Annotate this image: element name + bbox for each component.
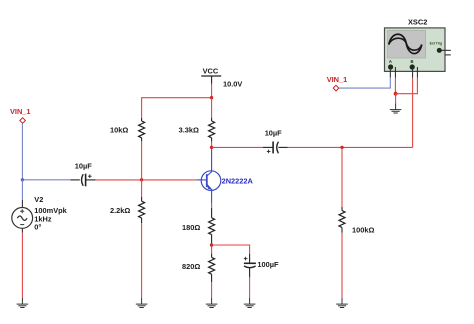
wire input horizontal to C1 (blue) bbox=[22, 179, 70, 181]
ground below scope bbox=[390, 103, 402, 113]
transistor Q1 2N2222A bbox=[196, 149, 221, 203]
source V2 bbox=[12, 200, 33, 233]
wire input vertical (blue) bbox=[21, 124, 23, 180]
wire 3.3k to collector node (red) bbox=[211, 141, 213, 147]
wire C3 to ground (red) bbox=[249, 277, 251, 298]
svg-text:2N2222A: 2N2222A bbox=[222, 176, 254, 185]
scope waveform A bbox=[389, 34, 422, 53]
resistor R2 2.2kOhm bbox=[139, 197, 145, 223]
svg-text:A: A bbox=[389, 59, 392, 64]
wire V2 to ground (red) bbox=[21, 233, 23, 298]
power VCC symbol bbox=[201, 76, 221, 84]
capacitor C2 10uF (output) bbox=[263, 142, 288, 154]
ground below 100k bbox=[336, 298, 348, 308]
svg-text:0°: 0° bbox=[34, 223, 41, 232]
ground below V2 bbox=[17, 298, 29, 308]
wire scope junction to B- (red) bbox=[395, 78, 417, 94]
wire C2 to 100k node (red) bbox=[288, 146, 413, 148]
node VIN_1 diamond (right) bbox=[333, 85, 339, 91]
wire V2 top (blue) bbox=[21, 180, 23, 200]
svg-text:10µF: 10µF bbox=[265, 128, 282, 137]
wire VCC to 3.3k (red) bbox=[211, 98, 213, 118]
junction scope ground node bbox=[394, 92, 398, 96]
svg-text:10kΩ: 10kΩ bbox=[110, 125, 128, 134]
resistor R3 3.3kOhm bbox=[209, 118, 215, 141]
svg-text:VIN_1: VIN_1 bbox=[327, 75, 348, 84]
wire 2.2k to ground (red) bbox=[141, 223, 143, 298]
oscilloscope XSC2 body bbox=[385, 28, 446, 72]
resistor R6 820Ohm bbox=[209, 254, 215, 282]
svg-text:B: B bbox=[411, 59, 414, 64]
svg-text:180Ω: 180Ω bbox=[182, 223, 200, 232]
svg-text:Ext Trig: Ext Trig bbox=[430, 42, 442, 46]
wire 820 to ground (red) bbox=[211, 282, 213, 298]
ground below C3 bbox=[244, 298, 256, 308]
wire divider mid (red) bbox=[141, 141, 143, 197]
scope waveform B bbox=[389, 38, 422, 50]
wire divider rail top (red) bbox=[142, 98, 212, 118]
wire emitter to 180 (red) bbox=[211, 203, 213, 208]
junction base/divider node bbox=[140, 178, 143, 181]
svg-text:100kΩ: 100kΩ bbox=[352, 226, 374, 235]
wire VIN to scope A (blue) bbox=[339, 78, 391, 89]
scope terminal B bbox=[410, 59, 418, 77]
wire output node to C2 (red) bbox=[212, 146, 263, 148]
svg-text:2.2kΩ: 2.2kΩ bbox=[110, 206, 130, 215]
wire C1 to base (red) bbox=[96, 179, 197, 181]
svg-text:820Ω: 820Ω bbox=[182, 262, 200, 271]
wire scope junction to ground (red) bbox=[395, 94, 397, 104]
ground below 2.2k bbox=[136, 298, 148, 308]
scope Ext Trig terminal bbox=[437, 48, 451, 55]
svg-text:VIN_1: VIN_1 bbox=[10, 107, 31, 116]
wire up to scope B+ (red) bbox=[412, 78, 414, 148]
wire scope A- to ground junction (red) bbox=[394, 78, 396, 94]
wire 100k to ground (red) bbox=[341, 233, 343, 298]
node VIN_1 diamond (left) bbox=[20, 118, 26, 124]
junction emitter node bbox=[210, 243, 213, 246]
capacitor C3 100uF bbox=[244, 254, 256, 277]
svg-text:10µF: 10µF bbox=[75, 161, 92, 170]
scope terminal A bbox=[388, 59, 395, 77]
svg-text:10.0V: 10.0V bbox=[223, 80, 242, 89]
junction 100k node bbox=[340, 146, 343, 149]
resistor R4 180Ohm bbox=[209, 208, 215, 243]
resistor R5 100kOhm bbox=[339, 207, 345, 233]
junction input node (blue dot) bbox=[21, 178, 24, 181]
svg-text:100µF: 100µF bbox=[257, 260, 279, 269]
wire emitter junction to C3 (red) bbox=[212, 245, 250, 254]
svg-text:VCC: VCC bbox=[203, 66, 219, 75]
ground below 820 bbox=[206, 298, 218, 308]
svg-text:V2: V2 bbox=[34, 195, 43, 204]
junction VCC node bbox=[210, 96, 213, 99]
svg-text:3.3kΩ: 3.3kΩ bbox=[179, 125, 199, 134]
junction collector/output node bbox=[210, 146, 213, 149]
capacitor C1 10uF (input) bbox=[71, 174, 96, 187]
wire VCC stem (red) bbox=[211, 84, 213, 98]
svg-text:XSC2: XSC2 bbox=[408, 17, 427, 26]
resistor R1 10kOhm bbox=[139, 118, 145, 141]
wire 100k top (red) bbox=[341, 147, 343, 206]
wire 180 to emitter junction (red) bbox=[211, 243, 213, 254]
